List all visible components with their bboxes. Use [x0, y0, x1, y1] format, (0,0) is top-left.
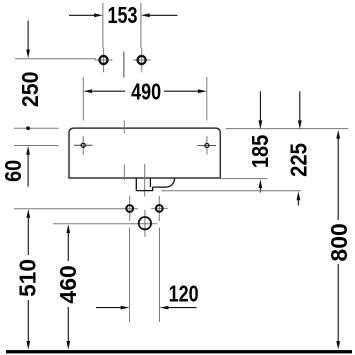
dim 490 line right with arrow	[164, 89, 207, 93]
svg-text:185: 185	[247, 135, 274, 168]
dim 510 line lower with arrow	[26, 300, 30, 350]
outlet extension line	[53, 223, 157, 225]
svg-text:60: 60	[0, 160, 26, 182]
dim 120 line left with arrow	[96, 306, 129, 310]
dim 120 extension line right	[159, 228, 161, 323]
trap cover curve	[153, 178, 175, 187]
dim 460 line lower with arrow	[66, 307, 70, 350]
fixing hole extension line	[14, 145, 59, 147]
svg-text:800: 800	[326, 223, 352, 261]
dim 185 lower line with arrow	[259, 179, 263, 192]
dim 250 end dot	[26, 126, 30, 130]
dim 510 line upper with arrow	[26, 209, 30, 255]
basin top extension line	[14, 127, 59, 129]
dim 60 line with arrow	[26, 146, 30, 187]
dim 225 lower line with arrow	[297, 191, 301, 205]
dim 153 extension line right	[140, 3, 142, 48]
dim 490 label	[131, 79, 161, 105]
svg-text:225: 225	[285, 143, 312, 177]
tap hole right crosshair	[133, 48, 151, 72]
basin outline	[69, 128, 220, 178]
dim 250 label	[17, 71, 43, 107]
dim 460 line upper with arrow	[66, 224, 70, 261]
dim 800 line lower with arrow	[336, 264, 340, 350]
dim 185 label	[247, 135, 274, 168]
dim 60 label	[0, 160, 26, 182]
dim 490 extension line right	[206, 77, 208, 121]
rim extension line right	[226, 128, 348, 130]
dim 185 upper line with arrow	[259, 91, 263, 129]
dim 800 label	[326, 223, 352, 261]
dim 153 extension line left	[102, 3, 104, 48]
dim 153 line left with arrow	[69, 13, 103, 17]
drain outline	[136, 178, 152, 191]
fixing hole right cross	[198, 136, 217, 155]
svg-text:490: 490	[131, 79, 161, 105]
dim 800 line upper with arrow	[336, 130, 340, 220]
trap bottom extension line	[161, 190, 301, 192]
tap hole left crosshair	[95, 48, 113, 72]
tap hole right	[138, 56, 146, 64]
svg-text:460: 460	[55, 265, 81, 303]
svg-text:153: 153	[108, 3, 138, 29]
drain centerline	[144, 164, 146, 197]
ref line tap height	[15, 58, 96, 60]
bolt hole left crosshair	[129, 196, 131, 221]
dim 120 line right with arrow	[160, 306, 197, 310]
fixing hole left	[81, 143, 85, 147]
tap centerline	[123, 52, 125, 78]
dim 153 label	[108, 3, 138, 29]
svg-text:120: 120	[169, 281, 199, 307]
bolt hole left	[126, 205, 133, 212]
svg-text:250: 250	[17, 71, 43, 107]
dim 490 extension line left	[82, 77, 84, 121]
svg-text:510: 510	[14, 259, 40, 297]
dim 510 label	[14, 259, 40, 297]
dim 250 line with arrow	[26, 21, 30, 59]
dim 460 label	[55, 265, 81, 303]
outlet crosshair	[144, 210, 146, 237]
bolt hole right	[156, 205, 163, 212]
dim 120 label	[169, 281, 199, 307]
basin centerline lower	[123, 165, 125, 181]
outlet circle	[139, 217, 151, 229]
dim 225 label	[285, 143, 312, 177]
tap hole left	[99, 56, 107, 64]
floor line	[6, 350, 352, 353]
dim 225 upper line with arrow	[298, 91, 302, 129]
dim 490 line left with arrow	[83, 89, 125, 93]
bolt row extension line	[14, 208, 138, 210]
fixing hole left cross	[74, 136, 93, 155]
basin centerline upper	[123, 120, 125, 133]
dim 153 line right with arrow	[141, 13, 178, 17]
fixing hole right	[205, 143, 209, 147]
bolt hole right crosshair	[151, 196, 168, 221]
basin bottom extension line	[222, 178, 268, 180]
dim 120 extension line left	[129, 228, 131, 323]
